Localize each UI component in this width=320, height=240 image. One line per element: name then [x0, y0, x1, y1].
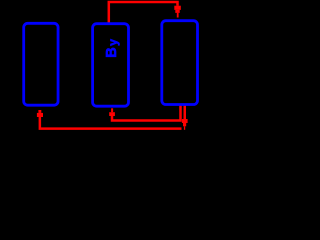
svg-text:y: y: [106, 39, 120, 46]
svg-text:B: B: [104, 47, 120, 57]
